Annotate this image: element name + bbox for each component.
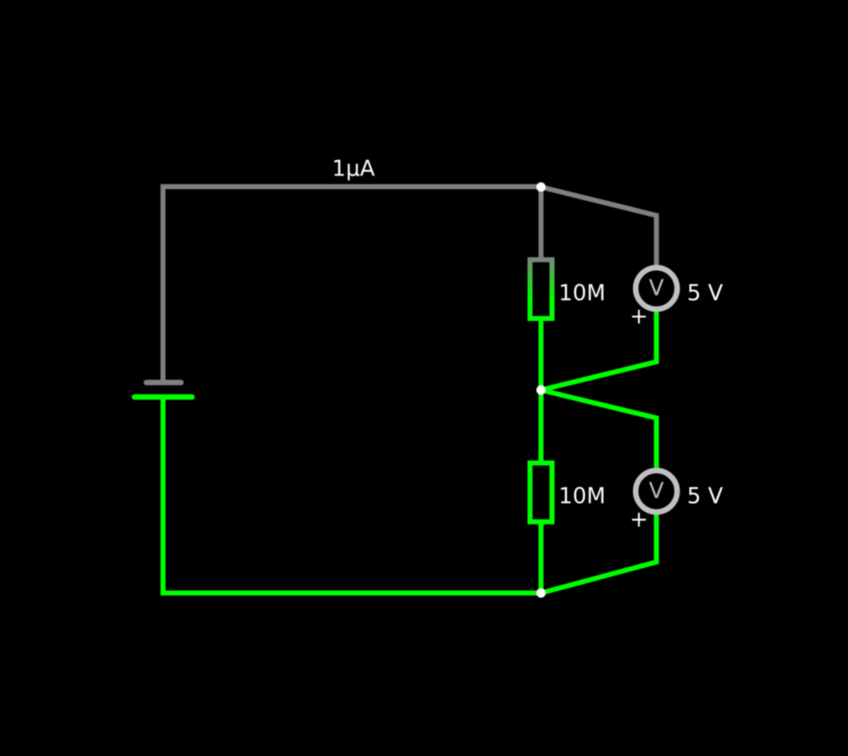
resistor R1 bottom lead (green, box to node B) — [539, 319, 544, 390]
voltmeter VM2 plus sign — [632, 513, 646, 527]
node A junction dot — [536, 182, 545, 191]
resistor R2 bottom lead (green, box to node C) — [539, 522, 544, 593]
label: R1 value 10M — [561, 284, 603, 301]
label: R2 value 10M — [561, 487, 603, 504]
wire: VM1 bottom lead down then diagonal to node B (green) — [541, 309, 656, 390]
wire: node A diagonal and down to VM1 top (gray) — [541, 187, 656, 267]
label: current 1µA — [334, 160, 374, 181]
node B junction dot — [536, 385, 545, 394]
resistor R2 top lead (green, node B to box) — [539, 390, 544, 462]
wire: green L from source bottom down and right to node C — [163, 397, 541, 593]
resistor R1 box 10M (gradient gray to green) — [530, 260, 552, 319]
voltmeter VM2 circle — [636, 470, 678, 512]
voltmeter VM1 plus sign — [632, 310, 646, 324]
label: VM1 reading 5 V — [689, 284, 723, 300]
wire: VM2 bottom lead down then diagonal to node C (green) — [541, 512, 656, 593]
node C junction dot — [536, 588, 545, 597]
voltmeter VM2 V glyph — [649, 482, 664, 498]
resistor R1 top lead (gray, node A to box) — [539, 187, 544, 259]
voltmeter VM1 V glyph — [649, 279, 664, 295]
resistor R2 box 10M (green) — [530, 463, 552, 522]
wire: node B diagonal and down to VM2 top (green) — [541, 390, 656, 470]
wire: gray L from node A left and down to source top plate — [163, 187, 541, 383]
label: VM2 reading 5 V — [689, 487, 723, 503]
current source B1 bottom plate (green, positive) — [135, 394, 193, 400]
voltmeter VM1 circle — [636, 268, 678, 310]
current source B1 top plate (gray, negative) — [146, 380, 181, 386]
